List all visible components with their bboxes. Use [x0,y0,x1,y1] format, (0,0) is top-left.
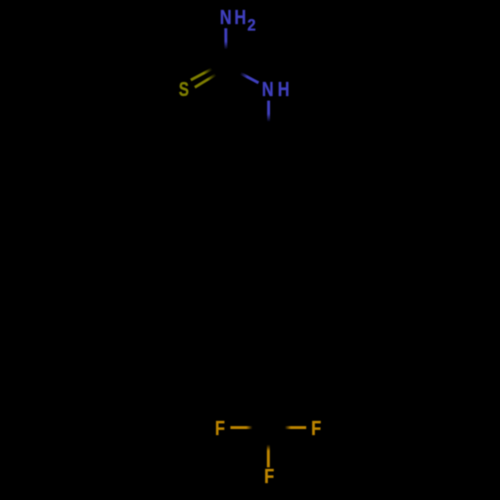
bond C8-F2 (CF3 carbon to right fluorine), visible gold half [285,426,306,429]
svg-text:S: S [179,78,189,101]
svg-text:F: F [311,416,321,439]
svg-text:F: F [264,464,274,487]
bond C8-F3 (CF3 carbon to bottom fluorine), visible gold half [267,445,270,468]
bond C8-F1 (CF3 carbon to left fluorine), visible gold half [230,426,252,429]
bond C1-N2 (thiourea carbon to NH nitrogen), visible blue half [240,73,258,83]
svg-text:N: N [262,77,274,100]
bond N2-C2 (NH nitrogen down to alkyl chain), visible blue half [267,101,270,122]
svg-text:H: H [234,5,246,28]
svg-text:N: N [220,5,232,28]
svg-text:2: 2 [247,17,256,35]
svg-text:F: F [215,416,225,439]
bond N1-C1 (amine N to thiourea carbon), visible blue half [224,28,227,49]
double bond C1=S upper line, visible olive half [191,69,212,80]
svg-text:H: H [278,77,290,100]
double bond C1=S lower line, visible olive half [195,75,216,88]
